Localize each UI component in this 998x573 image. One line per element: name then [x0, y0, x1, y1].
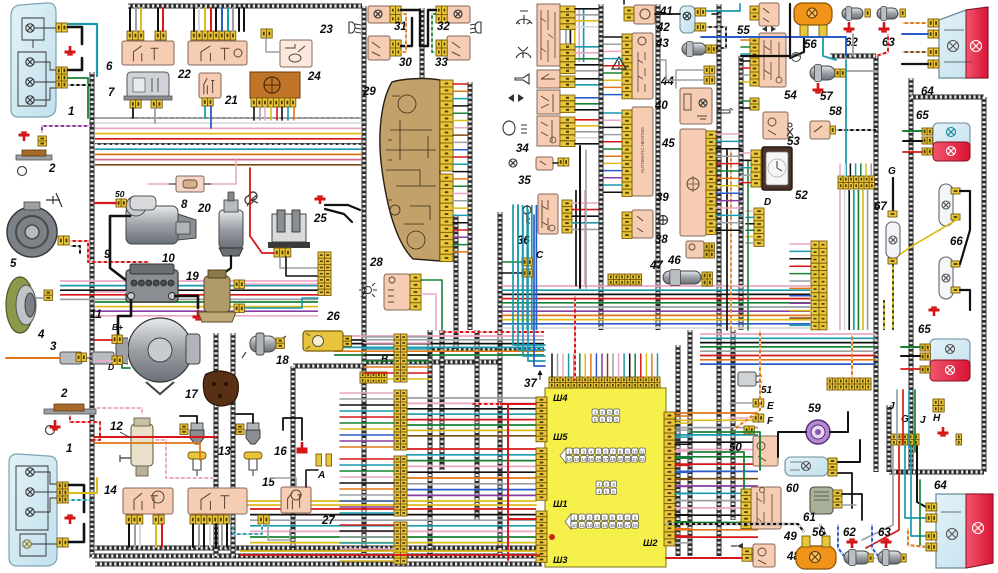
interior lamp 56 bottom [796, 546, 836, 569]
svg-text:2: 2 [48, 163, 56, 175]
wire bundle right area horizontal [700, 334, 876, 364]
module 25 [268, 210, 310, 248]
connector ECU left Sh5 [536, 397, 547, 442]
plate lamp 66 lower [939, 257, 953, 299]
wire relay15 teal loop [233, 524, 262, 534]
connector 65 bottom [920, 344, 930, 351]
svg-text:4: 4 [37, 329, 45, 341]
svg-text:64: 64 [921, 86, 934, 98]
connector headlamp1b [57, 482, 68, 489]
svg-text:29: 29 [362, 86, 376, 98]
svg-text:40: 40 [654, 100, 668, 112]
svg-text:63: 63 [878, 527, 891, 539]
connector 19 [234, 280, 244, 288]
connector big row right [838, 176, 874, 189]
connector A pair [316, 454, 322, 466]
svg-text:17: 17 [185, 389, 198, 401]
wire horn relay to left [95, 117, 128, 119]
connector 64 bottom [926, 503, 937, 511]
svg-text:5: 5 [10, 258, 17, 270]
svg-text:10: 10 [632, 449, 638, 454]
svg-text:41: 41 [659, 6, 673, 18]
svg-text:13: 13 [218, 446, 231, 458]
svg-text:H: H [933, 413, 941, 424]
wire 54 leads [741, 39, 750, 41]
svg-text:12: 12 [567, 457, 573, 462]
wire bundle under heater boxes [502, 286, 810, 328]
svg-text:4: 4 [596, 515, 599, 520]
headlamp 1 bottom-left [9, 454, 57, 566]
connector 39 [622, 110, 632, 196]
svg-text:7: 7 [619, 515, 622, 520]
wire red run ECU left [500, 403, 536, 405]
svg-text:Ш1: Ш1 [553, 499, 568, 510]
wire orange to lamp64b [908, 528, 926, 547]
connector 32 [436, 6, 447, 23]
connector 49 [741, 489, 751, 529]
wire yellow pair mid [216, 500, 536, 502]
svg-text:28: 28 [369, 257, 383, 269]
svg-text:G: G [888, 166, 896, 177]
svg-text:19: 19 [618, 457, 624, 462]
wire red dash prominent [470, 403, 500, 405]
wire bundle cluster tail [518, 205, 536, 330]
ground battery [193, 310, 204, 320]
fuse 8 [168, 176, 212, 192]
svg-text:20: 20 [625, 457, 631, 462]
svg-text:58: 58 [829, 106, 842, 118]
wire headlamp1 outputs [68, 78, 88, 118]
svg-text:3: 3 [608, 410, 611, 415]
svg-text:1: 1 [568, 449, 571, 454]
svg-text:51: 51 [761, 385, 773, 396]
svg-text:21: 21 [224, 95, 238, 107]
svg-text:3: 3 [612, 482, 615, 487]
svg-text:18: 18 [276, 355, 289, 367]
wire 52 leads [741, 152, 751, 154]
svg-text:14: 14 [602, 523, 608, 528]
svg-text:9: 9 [634, 515, 637, 520]
speed sensor 47 [663, 270, 701, 286]
wire 26 down [352, 339, 364, 341]
svg-text:Ш4: Ш4 [553, 393, 568, 404]
wire 59 black links [778, 432, 806, 457]
icon headlight 34 [503, 121, 527, 135]
wire item2b dashed [70, 414, 100, 440]
connector ECU left Sh1 [536, 448, 547, 500]
svg-text:5: 5 [603, 515, 606, 520]
wire 40 connector leads [604, 36, 622, 38]
bracket 2 bottom-left [44, 404, 96, 435]
connector 42 [695, 8, 706, 16]
wire harness center trunk horizontal [430, 347, 544, 352]
svg-text:66: 66 [950, 236, 963, 248]
wire bundle top-left to center [95, 118, 362, 165]
wire 56-62-63 down [790, 37, 804, 58]
ground 63 bottom [881, 539, 892, 548]
svg-text:3: 3 [50, 341, 57, 353]
svg-text:8: 8 [626, 515, 629, 520]
connector 60 [828, 458, 837, 470]
wire bundle left mid [60, 281, 318, 299]
lighter 44 [680, 88, 712, 124]
wire 57 to harness [846, 70, 876, 72]
ignition switch 36 [538, 194, 558, 234]
svg-text:17: 17 [603, 457, 609, 462]
switch box 30 [368, 36, 390, 60]
wire headlamp1b yellow [69, 478, 97, 493]
svg-text:22: 22 [640, 457, 646, 462]
connector 31 [390, 6, 401, 23]
wire top harness [128, 4, 362, 9]
svg-text:43: 43 [655, 38, 669, 50]
door switch 58 [810, 121, 830, 139]
wire E F leads [730, 402, 753, 404]
wire relay27 link [270, 478, 296, 487]
wire coil hv [220, 256, 231, 276]
svg-text:1: 1 [573, 515, 576, 520]
svg-text:11: 11 [90, 309, 102, 321]
connector 26 [343, 336, 351, 346]
svg-text:27: 27 [321, 515, 335, 527]
relay 15 [188, 488, 247, 514]
svg-text:4: 4 [598, 489, 601, 494]
svg-text:D: D [764, 197, 771, 208]
connector module25 [274, 248, 291, 257]
wire top right black [741, 4, 790, 56]
connector relay22 [191, 31, 236, 40]
svg-text:18: 18 [610, 457, 616, 462]
glovebox lamp 60 [785, 457, 828, 476]
wire feeds relay22 up [193, 8, 195, 31]
svg-text:9: 9 [626, 449, 629, 454]
svg-text:59: 59 [808, 403, 821, 415]
wire harness clock column [874, 56, 879, 472]
connector pair 0 row [360, 372, 387, 383]
wire feeds relay6 up [129, 8, 131, 31]
fan icon near coil [245, 192, 258, 206]
ground 63 [879, 22, 890, 32]
svg-text:2: 2 [581, 515, 584, 520]
svg-text:2: 2 [601, 410, 604, 415]
wire harness hazard column [656, 4, 661, 330]
connector 41 [624, 7, 634, 21]
wire 61 links [842, 494, 862, 520]
wire battery to alternator [118, 300, 131, 340]
svg-text:7: 7 [108, 87, 115, 99]
connector headlamp1 top [56, 23, 67, 32]
wire headlamp1b black loop [69, 485, 84, 512]
courtesy motor 57 [810, 65, 835, 82]
svg-text:2: 2 [60, 388, 68, 400]
svg-text:4: 4 [615, 410, 618, 415]
column switch 34 horn section [537, 70, 560, 88]
wire headlamp1 teal [68, 24, 97, 76]
svg-text:8: 8 [181, 199, 188, 211]
relay 21 [199, 73, 221, 98]
svg-text:32: 32 [437, 21, 450, 33]
label 12 pointer line [120, 432, 131, 438]
headlamp 1 top-left [11, 3, 56, 117]
icon fog lamp [470, 22, 481, 33]
svg-text:10: 10 [162, 253, 175, 265]
svg-text:6: 6 [601, 417, 604, 422]
ECU controller block [545, 388, 666, 567]
wire bundle ECU sh3 left [250, 509, 536, 543]
ground 57 [813, 83, 824, 93]
wire left red run [95, 436, 216, 438]
connector relay21 [202, 98, 213, 106]
svg-text:14: 14 [104, 485, 117, 497]
connector relay23 [261, 29, 272, 38]
svg-text:42: 42 [656, 22, 670, 34]
svg-text:65: 65 [916, 110, 929, 122]
column switch 34 wiper section [537, 4, 560, 66]
wire C leads [502, 261, 522, 263]
wire conn24 down fan leads [253, 107, 255, 120]
washer motor 63 bottom [878, 550, 902, 566]
svg-text:6: 6 [611, 515, 614, 520]
connector 30 [390, 40, 401, 56]
ground headlamp lower [65, 515, 76, 524]
svg-text:31: 31 [394, 21, 407, 33]
wire starter black to battery [110, 216, 130, 281]
connector 54 [750, 37, 759, 86]
connector ECU top row Sh4 [549, 377, 660, 388]
wire 44 gray loop [676, 70, 704, 88]
svg-text:39: 39 [656, 192, 669, 204]
wire bundle into bottom-right lamps [896, 390, 898, 440]
svg-text:1: 1 [68, 106, 74, 118]
connector 44 [704, 66, 715, 74]
ground near headlamp 1 [65, 46, 76, 55]
icon warning triangle [612, 57, 626, 69]
interior lamp 56 top [794, 3, 832, 25]
wire G vertical [892, 178, 894, 211]
connector relay14 [126, 515, 143, 524]
svg-text:65: 65 [918, 324, 931, 336]
svg-text:22: 22 [177, 69, 191, 81]
connector relay15 [190, 515, 229, 524]
wire bundle clock connector down [840, 190, 868, 330]
wire harness around relay 23-24 [420, 8, 425, 112]
svg-text:64: 64 [934, 480, 947, 492]
icon low beam [349, 22, 361, 33]
svg-text:13: 13 [595, 523, 601, 528]
connector 65 top [922, 128, 932, 135]
connector E [753, 399, 764, 407]
icon fan 38 [658, 215, 668, 225]
svg-text:Ш2: Ш2 [643, 538, 658, 549]
icon bulb 28 [359, 283, 377, 297]
wire bottom right dashed feed [666, 524, 804, 532]
ground bottom right [938, 427, 949, 436]
switch box 33 [447, 36, 470, 60]
wire 19 to stack [245, 283, 318, 285]
svg-text:18: 18 [633, 523, 639, 528]
wire stack B into harness left [364, 336, 394, 338]
connector starter 50 [116, 199, 126, 207]
turn relay lamp 42 [680, 6, 695, 33]
svg-text:37: 37 [524, 378, 537, 390]
svg-text:20: 20 [197, 203, 211, 215]
svg-text:5: 5 [594, 417, 597, 422]
heater control 39 [632, 107, 653, 196]
battery 10 [126, 264, 178, 302]
switch 55 [759, 3, 779, 26]
svg-text:17: 17 [625, 523, 631, 528]
wire teal bundle cluster down [513, 205, 545, 345]
svg-text:62: 62 [843, 527, 856, 539]
svg-text:19: 19 [186, 271, 199, 283]
switch 48 [753, 544, 775, 567]
connector mid row [608, 274, 642, 285]
wire red ECU to 48 [666, 557, 742, 559]
wire harness fuse column [739, 56, 744, 330]
svg-text:8: 8 [615, 417, 618, 422]
connector relay6 [127, 31, 144, 40]
wire blue long from 42 [701, 37, 846, 56]
wire black vertical from switch 34 [579, 146, 581, 288]
svg-text:6: 6 [106, 61, 113, 73]
injector 13 [188, 423, 206, 476]
svg-text:4: 4 [590, 449, 593, 454]
connector H [933, 399, 944, 412]
svg-text:E: E [767, 401, 774, 412]
wire 60 links [838, 440, 860, 462]
svg-text:C: C [536, 250, 544, 261]
relay 28 [384, 274, 410, 310]
icon washer 34 [516, 47, 531, 58]
wire 31-32 black link [401, 10, 428, 46]
connector row 379 [827, 378, 871, 390]
svg-text:13: 13 [574, 457, 580, 462]
wire harness right of lamp 45 [717, 4, 722, 556]
svg-text:34: 34 [516, 143, 529, 155]
injector 16 [244, 423, 262, 476]
connector 34 tags [560, 6, 575, 12]
wire conn23 to relay23 [266, 38, 280, 52]
tail lamp 64 top [939, 7, 988, 78]
relay 41 [634, 5, 655, 24]
light switch 54 [759, 33, 786, 87]
svg-text:5: 5 [597, 449, 600, 454]
wire relay21 down [204, 106, 206, 118]
wire cluster outputs right [453, 83, 468, 85]
svg-text:54: 54 [784, 90, 797, 102]
ECU service dot [549, 534, 555, 540]
lamp box 32 [447, 6, 470, 23]
heater unit 45 [680, 129, 706, 236]
wire 66 blacks [960, 191, 970, 264]
svg-text:61: 61 [803, 512, 816, 524]
connector 36 [562, 200, 572, 233]
connector 18 [276, 338, 284, 348]
svg-text:26: 26 [326, 311, 340, 323]
svg-text:1: 1 [598, 482, 601, 487]
connector 40 [622, 34, 632, 99]
relay 61 [810, 487, 833, 514]
relay 7 [124, 72, 172, 100]
heated seat switch 50 [753, 436, 778, 466]
wire main harness left vertical [90, 72, 95, 558]
washer motor 62 bottom [844, 550, 870, 566]
relay 6 [122, 41, 174, 65]
wire harness lower middle verticals [214, 333, 219, 556]
connector ECU left Sh3 [536, 511, 547, 562]
connector stack 811 [811, 241, 827, 330]
wire 65b leads [901, 346, 920, 348]
connector 13-16 tops [180, 424, 188, 434]
wire 53 leads [741, 100, 750, 102]
svg-text:F: F [767, 416, 774, 427]
svg-text:30: 30 [399, 57, 412, 69]
wire harness top-right lamp [909, 78, 914, 472]
wire 65 top leads [903, 130, 922, 132]
relay 14 [123, 488, 173, 514]
wire item2 dashed to harness [42, 126, 92, 133]
ground item2 [19, 132, 30, 141]
connector 52 [751, 150, 761, 187]
wire relay15 down leads [192, 524, 194, 547]
wire D leads [746, 210, 754, 212]
svg-text:46: 46 [667, 255, 681, 267]
switch 26 [303, 331, 343, 351]
svg-text:57: 57 [820, 91, 833, 103]
connector 45 [706, 131, 716, 235]
wire 64b leads [920, 480, 926, 547]
sensor 3 [60, 352, 114, 364]
svg-text:5: 5 [605, 489, 608, 494]
wire harness right edge vertical [982, 97, 987, 472]
svg-text:53: 53 [787, 136, 800, 148]
svg-text:15: 15 [610, 523, 616, 528]
wire bundle right lamps feed [862, 446, 893, 540]
icon key 36 [523, 206, 531, 223]
svg-text:50: 50 [115, 189, 125, 199]
wire 28 to harness [421, 280, 442, 330]
wire center vertical harness [362, 6, 367, 556]
relay 22 [188, 41, 247, 65]
wire alternator D [95, 360, 112, 362]
washer motor 63 top [877, 7, 898, 21]
column switch 34 turn section [537, 90, 560, 114]
lamp switch 35 [536, 157, 553, 170]
ground 62 bottom [847, 539, 858, 548]
ignition coil 20 [219, 192, 243, 256]
wire harness lower mid-left vertical [291, 366, 296, 548]
wire 36 to harness [572, 202, 598, 204]
wire stack B to ECU [408, 336, 430, 338]
connector 24 [251, 98, 296, 107]
connector 28 [410, 274, 421, 310]
wire bundle left of steering switch [566, 8, 584, 62]
connector horn [58, 236, 69, 245]
svg-text:49: 49 [783, 531, 797, 543]
wire relay14 down leads [128, 524, 130, 547]
svg-text:25: 25 [313, 213, 327, 225]
svg-text:33: 33 [435, 57, 448, 69]
wire battery positive [175, 296, 198, 308]
svg-text:52: 52 [795, 190, 808, 202]
svg-text:56: 56 [804, 39, 817, 51]
ECU pin table sh4 [592, 409, 620, 422]
svg-text:7: 7 [612, 449, 615, 454]
icon arrows 34 [508, 94, 524, 102]
wire harness trunk verticals near ECU [440, 330, 445, 470]
wire starter red [95, 202, 116, 204]
icon seatbelt 58 [787, 123, 793, 139]
